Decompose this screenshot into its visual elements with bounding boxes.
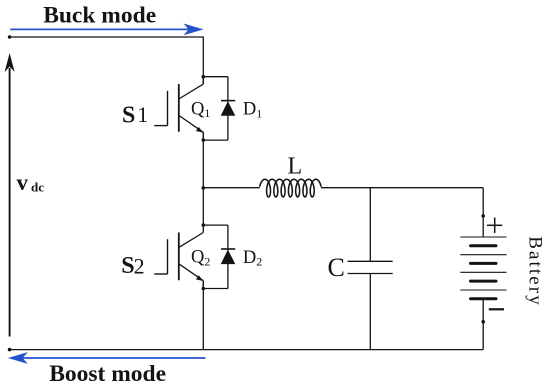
svg-text:L: L <box>288 154 303 180</box>
svg-text:Buck mode: Buck mode <box>43 2 156 28</box>
svg-text:D1: D1 <box>243 100 262 121</box>
svg-text:D2: D2 <box>243 248 262 269</box>
svg-text:S: S <box>122 102 135 128</box>
svg-text:Q1: Q1 <box>191 99 210 120</box>
svg-text:Boost mode: Boost mode <box>49 361 166 386</box>
svg-text:C: C <box>328 253 345 282</box>
svg-text:2: 2 <box>134 253 145 278</box>
svg-text:1: 1 <box>137 102 148 127</box>
svg-text:Battery: Battery <box>525 236 546 307</box>
svg-text:Q2: Q2 <box>191 248 210 269</box>
svg-text:dc: dc <box>31 179 44 194</box>
svg-text:v: v <box>17 170 29 195</box>
